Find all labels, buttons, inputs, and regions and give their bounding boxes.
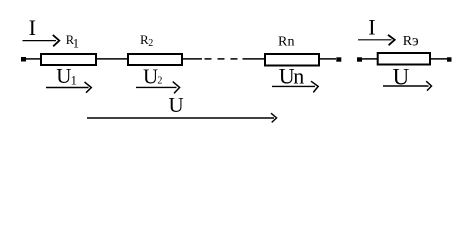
- node: left terminal of equivalent circuit: [357, 57, 362, 61]
- wire Rn to right terminal: [319, 58, 336, 60]
- wire terminal to Re: [362, 58, 378, 60]
- svg-text:U: U: [143, 64, 158, 88]
- resistor Re: [378, 53, 430, 65]
- current arrow I left: [23, 35, 60, 46]
- voltage arrow U right: [383, 81, 432, 90]
- node: right terminal of equivalent circuit: [447, 57, 452, 61]
- svg-text:I: I: [29, 15, 36, 40]
- label U2: [143, 64, 162, 88]
- voltage arrow U total: [87, 113, 277, 122]
- wire terminal to R1: [26, 58, 41, 60]
- voltage arrow Un: [272, 81, 318, 92]
- current arrow I right: [358, 35, 395, 45]
- resistor R2: [128, 54, 182, 65]
- svg-text:R: R: [278, 35, 288, 50]
- svg-text:э: э: [412, 33, 419, 50]
- voltage arrow U2: [136, 82, 180, 94]
- label R1: [66, 33, 79, 51]
- svg-text:n: n: [288, 35, 295, 50]
- svg-text:2: 2: [157, 76, 162, 87]
- label Un: [279, 64, 304, 89]
- label Re (equivalent resistance): [403, 33, 419, 50]
- svg-text:U: U: [169, 93, 184, 117]
- svg-text:2: 2: [148, 38, 153, 49]
- voltage arrow U1: [46, 82, 91, 93]
- svg-text:n: n: [293, 64, 304, 89]
- node: right terminal of chain: [336, 57, 341, 61]
- svg-text:I: I: [368, 15, 375, 40]
- label U1: [56, 64, 77, 88]
- svg-text:1: 1: [73, 37, 79, 51]
- wire R1 to R2: [96, 58, 128, 60]
- node: left terminal: [21, 57, 26, 62]
- wire dashed continuation: [205, 58, 238, 60]
- label R2: [140, 32, 153, 49]
- label Rn: [278, 35, 295, 50]
- resistor Rn: [265, 54, 319, 66]
- wire dashes to Rn: [243, 58, 266, 60]
- resistor R1: [41, 54, 96, 65]
- wire R2 toward dashes: [183, 58, 202, 60]
- wire Re to right terminal: [430, 58, 447, 60]
- svg-text:1: 1: [71, 73, 77, 87]
- svg-text:U: U: [56, 64, 71, 88]
